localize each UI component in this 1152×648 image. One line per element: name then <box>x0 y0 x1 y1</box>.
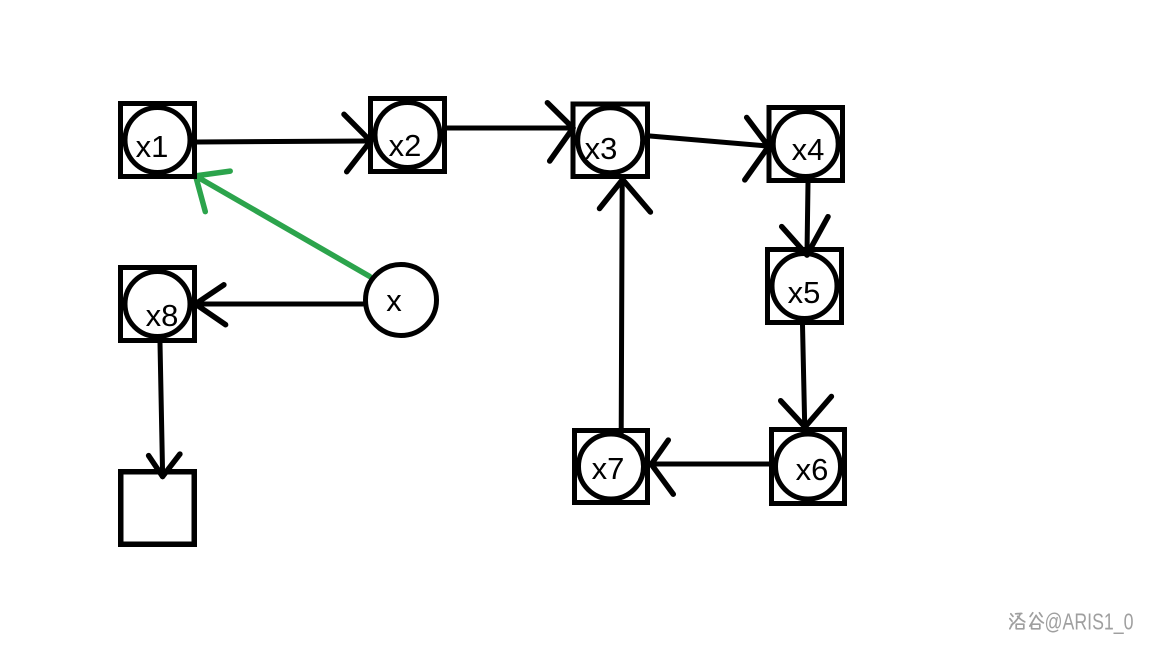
svg-text:x5: x5 <box>788 275 821 310</box>
svg-text:x3: x3 <box>585 131 618 166</box>
svg-text:x: x <box>386 283 402 318</box>
svg-text:x7: x7 <box>592 451 625 486</box>
svg-text:x8: x8 <box>146 298 179 333</box>
svg-text:x2: x2 <box>389 128 422 163</box>
svg-text:x6: x6 <box>796 452 829 487</box>
svg-text:x4: x4 <box>792 132 825 167</box>
svg-text:x1: x1 <box>136 129 169 164</box>
svg-text:@ARIS1_0: @ARIS1_0 <box>1045 609 1134 635</box>
